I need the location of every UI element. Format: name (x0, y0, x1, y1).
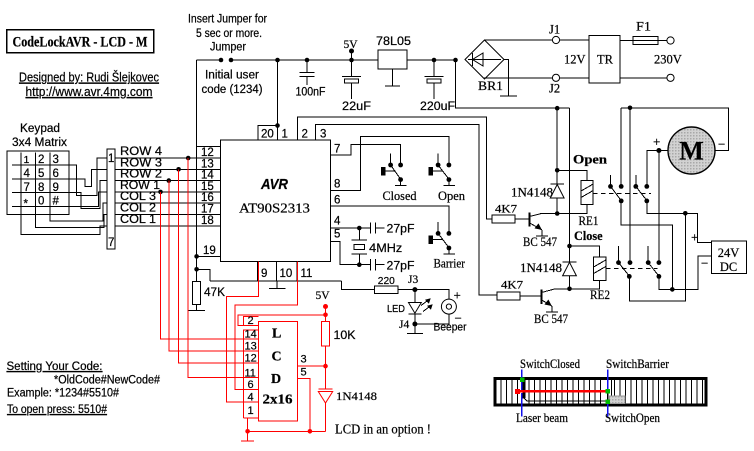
wire BR1 to J1 (485, 39, 553, 41)
svg-text:http://www.avr.4mg.com: http://www.avr.4mg.com (26, 84, 153, 99)
motor M (653, 127, 725, 174)
beeper BZ1 (415, 288, 467, 334)
svg-text:BR1: BR1 (478, 79, 503, 93)
svg-text:220uF: 220uF (420, 101, 455, 113)
wire dot685 down to close contact (629, 213, 685, 301)
svg-text:+: + (691, 230, 698, 245)
svg-text:18: 18 (201, 215, 214, 227)
svg-text:J4: J4 (399, 319, 409, 331)
relay contact S2b (646, 246, 662, 279)
pin 7 wire (331, 143, 401, 165)
pin 1 label (278, 126, 288, 141)
node Close junction (567, 108, 603, 248)
svg-text:ROW 4: ROW 4 (120, 146, 163, 158)
capacitor 100nF (296, 58, 326, 99)
svg-text:C: C (272, 350, 282, 365)
wire M plus rail down (658, 151, 660, 263)
svg-text:5 sec or more.: 5 sec or more. (196, 28, 262, 40)
relay contact S1a riser (620, 108, 622, 187)
wire J3 to beeper (415, 290, 449, 300)
wire red ROW4 to LCD pin11 (188, 158, 243, 378)
svg-text:Designed by: Rudi Šlejkovec: Designed by: Rudi Šlejkovec (19, 70, 159, 85)
svg-text:AVR: AVR (260, 177, 288, 193)
svg-text:Example: *1234#5510#: Example: *1234#5510# (7, 388, 120, 400)
svg-text:230V: 230V (654, 53, 682, 67)
terminal 230V bottom (667, 74, 674, 81)
wire red AVR pin9 to LCD pin4 (227, 262, 259, 403)
jumper J pins (219, 58, 234, 63)
wire ROW3 net (115, 157, 221, 169)
pin 20 cell (258, 126, 278, 141)
wire keypad row1 to connector pin1 (69, 158, 107, 195)
svg-text:To open press: 5510#: To open press: 5510# (7, 404, 108, 416)
fuse F1 (620, 20, 667, 45)
svg-text:4: 4 (248, 392, 254, 404)
LED D3 (387, 290, 433, 324)
wire LED feed from reset node (342, 281, 375, 290)
node ROW3 red tap (176, 167, 181, 172)
svg-text:SwitchOpen: SwitchOpen (605, 411, 661, 425)
wire red ROW2 to LCD pin13 (169, 181, 244, 351)
svg-text:*OldCode#NewCode#: *OldCode#NewCode# (54, 375, 161, 387)
pin 3 wire to rail (316, 124, 497, 295)
label SwitchClosed (520, 357, 581, 390)
svg-text:13: 13 (201, 158, 214, 170)
svg-text:27pF: 27pF (387, 224, 415, 236)
svg-text:14: 14 (245, 329, 257, 341)
svg-text:ROW 2: ROW 2 (120, 169, 162, 181)
node 5V (344, 39, 359, 62)
relay contact S1b riser from M plus (647, 151, 659, 187)
note Insert Jumper (188, 14, 267, 54)
svg-text:10: 10 (280, 268, 293, 280)
pin 6 wire (331, 195, 449, 234)
svg-text:11: 11 (245, 367, 256, 379)
svg-text:ROW 1: ROW 1 (120, 180, 160, 192)
transistor Q2 BC547 (534, 289, 570, 326)
wire 5V rail top (197, 59, 456, 61)
wire COL2 net (115, 203, 221, 215)
LCD pin cells left (244, 315, 259, 418)
svg-text:47K: 47K (204, 287, 225, 299)
svg-text:COL 1: COL 1 (120, 214, 156, 226)
svg-text:Closed: Closed (383, 188, 417, 203)
node red 5V (316, 290, 331, 317)
svg-text:10K: 10K (334, 330, 356, 342)
svg-text:2: 2 (248, 315, 254, 327)
svg-text:COL 3: COL 3 (120, 191, 156, 203)
svg-text:16: 16 (201, 192, 214, 204)
svg-text:2: 2 (38, 154, 44, 166)
svg-text:1N4148: 1N4148 (520, 260, 562, 275)
wire COL1 net (115, 214, 221, 226)
svg-text:11: 11 (301, 268, 313, 280)
pin 5 wire (331, 229, 362, 268)
wire red 5V rail to LCD pin2 (238, 315, 325, 326)
diode D2 1N4148 (520, 246, 576, 291)
svg-text:D: D (271, 372, 281, 387)
designed-by text (19, 70, 159, 100)
svg-text:8: 8 (334, 179, 340, 191)
svg-text:12: 12 (245, 353, 257, 365)
svg-text:4K7: 4K7 (495, 203, 517, 215)
svg-text:5: 5 (38, 168, 44, 180)
capacitor C 220uF (420, 58, 455, 113)
resistor 4K7 second (497, 279, 542, 300)
note Setting Your Code (7, 361, 161, 416)
svg-text:6: 6 (334, 195, 340, 207)
label Keypad (12, 123, 67, 149)
svg-text:12: 12 (201, 147, 214, 159)
note LCD option red (335, 422, 431, 437)
node 12V DC rail (453, 58, 569, 111)
switch Closed (381, 153, 417, 203)
wire J1 to TR (560, 39, 589, 41)
svg-text:Open: Open (573, 152, 608, 167)
battery 24V DC (691, 230, 746, 275)
wire red AVR pin11 to LCD pin6 (235, 262, 298, 390)
svg-text:+: + (653, 134, 660, 149)
svg-text:BC 547: BC 547 (534, 311, 568, 326)
svg-text:6: 6 (53, 168, 59, 180)
svg-text:8: 8 (38, 182, 44, 194)
svg-text:Initial user: Initial user (205, 70, 259, 82)
svg-text:9: 9 (261, 268, 267, 280)
capacitor 27pF top (359, 222, 414, 235)
svg-text:1: 1 (24, 154, 30, 166)
wire ROW2 net (115, 169, 221, 181)
switch Open (429, 153, 466, 203)
svg-text:SwitchClosed: SwitchClosed (520, 357, 581, 371)
ground below J4 (407, 324, 423, 334)
svg-text:+: + (454, 288, 461, 303)
svg-text:7: 7 (108, 237, 114, 249)
resistor 10K red (322, 315, 356, 369)
dashed link RE1 (593, 193, 651, 195)
svg-text:5: 5 (301, 367, 307, 379)
svg-text:9: 9 (53, 182, 59, 194)
node pin1 riser junction (275, 58, 280, 128)
svg-text:Open: Open (438, 188, 465, 203)
svg-text:L: L (272, 327, 281, 342)
svg-text:220: 220 (378, 275, 395, 287)
svg-text:4: 4 (24, 168, 31, 180)
svg-text:CodeLockAVR - LCD - M: CodeLockAVR - LCD - M (13, 35, 148, 51)
wire pin19 to reset rail (194, 267, 210, 281)
relay contact S2a (616, 246, 632, 279)
op-amp U1 AVR AT90S2313 chip body (221, 140, 331, 262)
svg-text:4: 4 (334, 216, 341, 228)
wire keypad col3 to connector pin5 (50, 203, 107, 221)
label SwitchBarrier (606, 357, 670, 393)
svg-text:−: − (718, 137, 725, 152)
LCD module box (259, 322, 298, 422)
pin 19 wire (194, 245, 220, 259)
svg-text:1N4148: 1N4148 (336, 391, 377, 403)
svg-text:5V: 5V (316, 290, 331, 302)
wire ROW1 net (115, 180, 221, 192)
keypad 3x4 matrix box (7, 151, 69, 215)
diode D4 1N4148 red (318, 366, 377, 431)
relay contact S2a riser (629, 108, 631, 263)
crystal 4MHz (352, 228, 403, 265)
svg-text:7: 7 (24, 182, 30, 194)
svg-text:J2: J2 (549, 82, 560, 96)
svg-text:M: M (679, 137, 704, 166)
svg-text:27pF: 27pF (387, 260, 415, 272)
svg-text:code (1234): code (1234) (202, 84, 263, 96)
svg-text:4MHz: 4MHz (369, 243, 402, 255)
svg-text:15: 15 (201, 181, 214, 193)
svg-text:BC 547: BC 547 (523, 234, 557, 249)
ground red (241, 431, 254, 441)
relay coil RE2 (570, 246, 611, 302)
pin numbers left 12-19 (197, 147, 221, 258)
svg-text:6: 6 (248, 379, 254, 391)
capacitor C 22uF (342, 60, 371, 113)
svg-text:J3: J3 (408, 274, 418, 286)
wire COL3 net (115, 191, 221, 203)
svg-text:22uF: 22uF (342, 101, 371, 113)
pin 9 10 11 cells (210, 262, 342, 282)
LCD pin1 wire to ground rail (245, 418, 250, 434)
svg-text:AT90S2313: AT90S2313 (239, 201, 310, 216)
resistor 220 (375, 275, 415, 294)
svg-text:Keypad: Keypad (20, 123, 60, 135)
wire 12V top rail right segment (621, 106, 728, 151)
svg-text:*: * (24, 199, 29, 211)
svg-text:Setting Your Code:: Setting Your Code: (7, 361, 103, 373)
relay contact S1b (633, 175, 649, 204)
wire keypad row3 to connector pin3 (69, 181, 107, 209)
diode D1 1N4148 (511, 170, 564, 216)
svg-text:#: # (53, 196, 60, 208)
svg-text:DC: DC (720, 260, 737, 274)
pin 4 wire (331, 216, 362, 231)
node J4 (399, 319, 417, 331)
svg-text:TR: TR (597, 53, 614, 67)
pin 8 wire (331, 137, 449, 191)
svg-text:ROW 3: ROW 3 (120, 157, 162, 169)
node Open junction (555, 108, 608, 172)
node ROW4 red tap (186, 156, 191, 161)
svg-text:LCD in an option !: LCD in an option ! (335, 422, 431, 437)
wire keypad col1 to connector pin7 (21, 215, 107, 235)
connector K1 keypad header (107, 149, 115, 249)
wire keypad row2 to connector pin2 (69, 169, 107, 186)
svg-text:Jumper: Jumper (210, 42, 246, 54)
node J3 (408, 274, 418, 292)
svg-text:1: 1 (108, 153, 114, 165)
wire keypad col2 to connector pin6 (36, 215, 108, 228)
wire S1b common to 24V plus (647, 201, 712, 243)
terminal J2 (549, 74, 560, 95)
svg-text:5: 5 (334, 229, 340, 241)
terminal 230V top (667, 37, 674, 44)
svg-text:3: 3 (301, 354, 307, 366)
title box CodeLockAVR (7, 30, 154, 53)
resistor 47K (189, 281, 226, 310)
transformer TR (589, 36, 620, 84)
wire red ground rail (248, 430, 326, 432)
svg-text:0: 0 (38, 196, 44, 208)
svg-text:100nF: 100nF (296, 87, 326, 99)
wire S1a common to 24V minus (621, 201, 674, 292)
svg-text:Insert Jumper for: Insert Jumper for (188, 14, 267, 26)
svg-text:SwitchBarrier: SwitchBarrier (606, 357, 670, 371)
wire ROW4 net (115, 146, 221, 158)
wire BR1 to J2 (485, 78, 553, 79)
svg-text:14: 14 (201, 170, 214, 182)
laser beam red (515, 389, 608, 394)
capacitor 27pF bottom (359, 259, 414, 272)
svg-text:1: 1 (282, 129, 288, 141)
label 230V (654, 53, 682, 67)
svg-text:Beeper: Beeper (434, 322, 467, 334)
wire TR to 230V bottom (620, 77, 667, 79)
relay coil RE1 (557, 170, 598, 228)
svg-text:13: 13 (245, 341, 257, 353)
transistor Q1 BC547 (523, 213, 557, 250)
dashed link RE2 (606, 267, 658, 269)
svg-text:Barrier: Barrier (434, 256, 466, 271)
note Initial user code (202, 70, 263, 97)
node ROW1 red tap (158, 190, 163, 195)
label SwitchOpen (605, 399, 661, 425)
svg-text:3x4 Matrix: 3x4 Matrix (12, 137, 67, 149)
svg-text:RE2: RE2 (590, 287, 610, 302)
svg-text:2x16: 2x16 (263, 393, 293, 408)
relay contact S1a (608, 175, 624, 204)
ground pin10 (269, 281, 286, 289)
svg-text:COL 2: COL 2 (120, 203, 156, 215)
svg-text:1N4148: 1N4148 (511, 184, 553, 199)
svg-text:3: 3 (53, 154, 59, 166)
svg-text:24V: 24V (718, 246, 740, 260)
svg-text:RE1: RE1 (579, 213, 599, 228)
bridge rectifier BR1 (465, 40, 504, 93)
label Laser beam (516, 393, 568, 425)
regulator 78L05 (376, 36, 411, 86)
svg-text:Laser beam: Laser beam (516, 411, 568, 425)
svg-text:17: 17 (201, 204, 214, 216)
svg-text:12V: 12V (564, 53, 586, 67)
wire red ROW3 to LCD pin12 (179, 169, 244, 363)
wire S2b common to 24V minus line (659, 256, 712, 290)
fence gate diagram (495, 379, 706, 406)
terminal J1 (549, 23, 560, 44)
svg-text:Close: Close (574, 228, 603, 243)
svg-text:F1: F1 (636, 20, 651, 34)
ground below BR1 (500, 60, 517, 97)
svg-text:1: 1 (248, 405, 254, 417)
svg-text:LED: LED (387, 303, 405, 315)
LCD pin3 wire (297, 354, 325, 367)
svg-text:78L05: 78L05 (376, 36, 411, 48)
svg-text:7: 7 (334, 143, 340, 155)
wire reset rail down left (196, 60, 198, 281)
label 12V (564, 53, 586, 67)
svg-text:3: 3 (320, 129, 326, 141)
switch Barrier (429, 222, 466, 271)
wire red ROW1 to LCD pin14 (161, 192, 244, 339)
svg-text:J1: J1 (549, 23, 560, 37)
pin 2 wire to rail (297, 117, 492, 219)
LCD pin5 wire (297, 367, 312, 434)
wire keypad row4 to connector pin4 (69, 192, 107, 207)
resistor 4K7 first (492, 203, 530, 223)
svg-text:−: − (701, 256, 708, 271)
svg-text:20: 20 (261, 129, 274, 141)
svg-text:19: 19 (203, 245, 216, 257)
svg-text:2: 2 (302, 129, 308, 141)
node ROW2 red tap (167, 178, 172, 183)
wire J2 to TR (560, 77, 589, 79)
svg-text:4K7: 4K7 (501, 279, 523, 291)
